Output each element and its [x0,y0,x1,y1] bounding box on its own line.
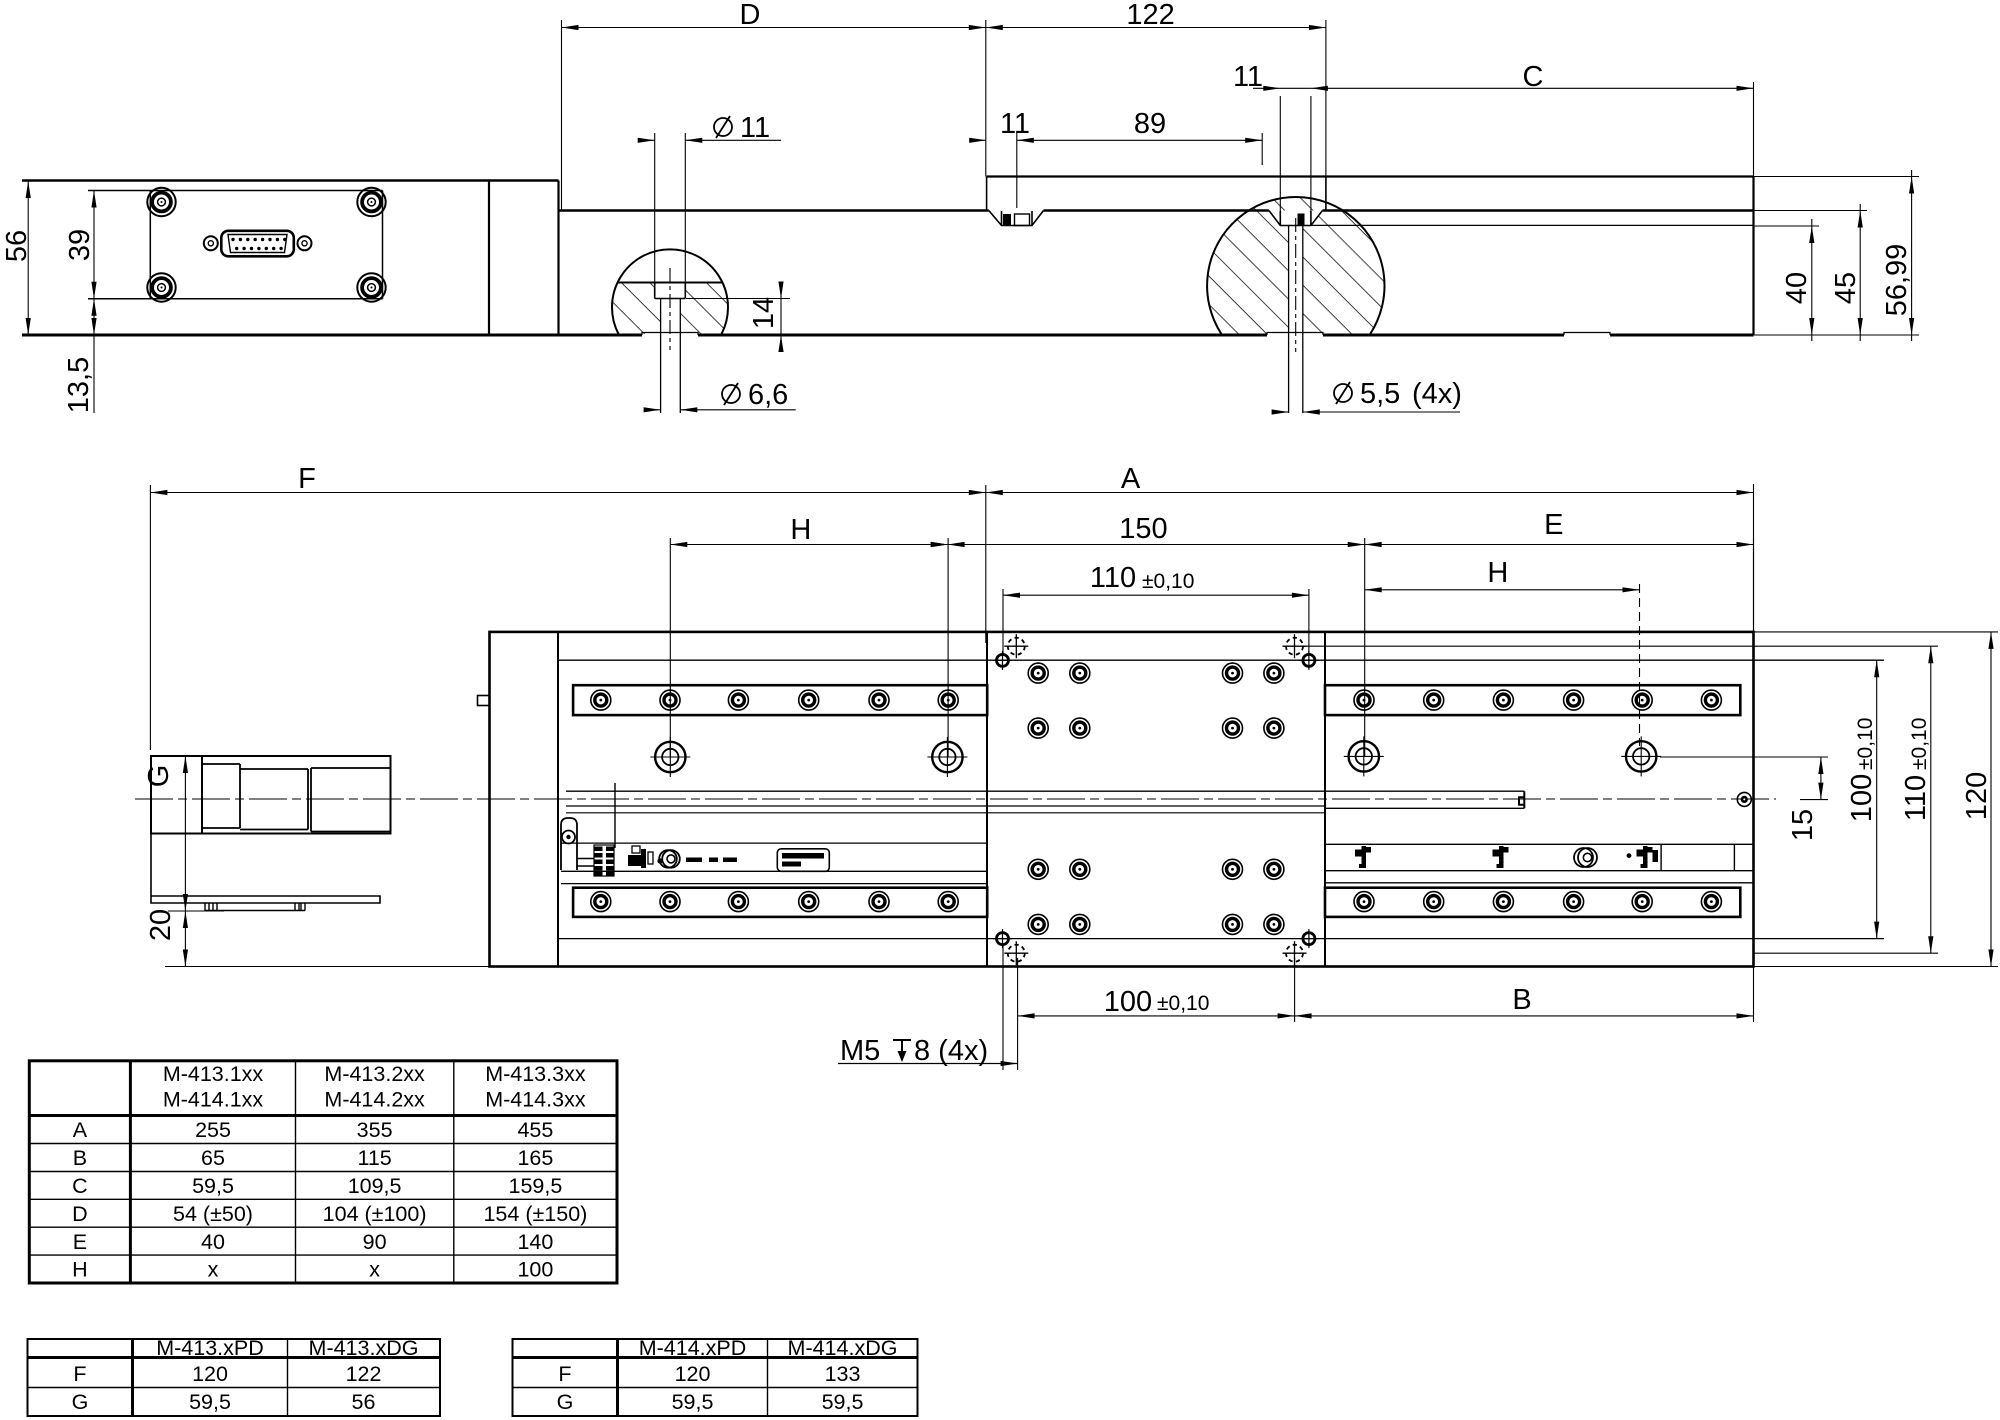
svg-text:13,5: 13,5 [63,357,95,413]
svg-text:H: H [790,514,811,546]
svg-text:C: C [72,1174,88,1198]
svg-text:8 (4x): 8 (4x) [914,1035,988,1067]
table M-414 header bottom [513,1356,918,1359]
bottom notch under right hole [1267,333,1323,336]
table M-414 columns [616,1339,619,1416]
dim diam11 [638,112,781,283]
svg-text:11: 11 [1000,108,1030,140]
rail screws lower right [1354,892,1374,912]
section circle right [1207,197,1384,334]
svg-text:A: A [73,1118,88,1142]
svg-text:14: 14 [748,297,780,329]
dim 39 [64,191,97,299]
dim 56 [1,181,110,335]
dim 110 top [1003,562,1309,654]
bolt hole 5.5 right wall [1302,226,1304,414]
dim 40 [1754,219,1820,341]
dim 120 right [1754,632,1999,967]
rail screws lower left [591,892,611,912]
svg-text:59,5: 59,5 [189,1390,231,1414]
leadscrew bottom line [566,812,1326,814]
motor housing left bearing wall [614,783,616,848]
svg-text:100: 100 [517,1258,553,1282]
double circle symbol right [1574,848,1593,867]
M5 thread BR [1299,929,1318,948]
svg-text:±0,10: ±0,10 [1908,718,1931,770]
svg-text:A: A [1121,463,1141,495]
D-sub pins row2 [235,247,283,250]
dim 20 [145,909,490,967]
dim 89 [1017,108,1262,165]
carriage screws row2 [1028,718,1048,738]
leadscrew end cap [1519,791,1524,808]
dim diam6,6 [644,379,796,412]
clamp symbol right 1 [1355,846,1371,868]
svg-text:M5: M5 [840,1035,880,1067]
svg-text:E: E [73,1230,87,1254]
svg-text:5,5: 5,5 [1360,378,1400,410]
dim 45 [1754,204,1868,341]
datum target BL [1004,941,1028,965]
connector stub on left edge [478,696,490,706]
left clamp white square [1015,214,1030,226]
dim 122 [986,0,1326,177]
svg-text:100: 100 [1846,774,1878,822]
motor section 3 [240,769,308,830]
main table header bottom [29,1114,617,1117]
svg-text:±0,10: ±0,10 [1854,718,1877,770]
dim H left [670,514,948,757]
D-sub connector body [221,231,293,256]
dim H right [1365,557,1640,746]
svg-text:110: 110 [1900,775,1932,821]
svg-text:B: B [1512,984,1531,1016]
svg-text:x: x [208,1258,219,1282]
motor mount plate [151,834,380,904]
motor block top edge [22,179,559,181]
dim C [1311,61,1754,177]
svg-text:59,5: 59,5 [822,1390,864,1414]
rail top edge [559,209,1754,211]
svg-text:11: 11 [1233,61,1263,93]
table M-413 frame [28,1339,441,1416]
connector panel top edge [88,190,383,192]
dim 110 right [1900,646,1933,953]
carriage left edge [986,177,988,211]
electronics band lower line [561,882,1754,885]
right end screw on centerline [1737,792,1751,806]
table M-414 frame [513,1339,918,1416]
centerline hole left [669,268,671,350]
svg-text:109,5: 109,5 [348,1174,402,1198]
counterbore hole right 2 [1621,736,1661,776]
centerline hole right [1295,218,1297,352]
svg-text:133: 133 [825,1362,861,1386]
terminal pin block [594,845,614,876]
carriage right edge [1325,177,1327,211]
carriage plate right edge [1324,633,1326,966]
table M-413 row line [28,1387,441,1389]
inner bottom line 100 grid [558,938,1884,940]
datum target TR [1283,634,1307,658]
limit switch bracket left [561,818,577,870]
left clamp pocket [989,211,1044,226]
electronics band bottom line [561,870,1754,873]
flange inner wall [557,632,559,967]
guide rail strip upper right [1325,685,1740,715]
target row line top [1303,645,1938,647]
counterbore slot right wall [684,283,686,299]
counterbore hole left 1 [650,737,690,777]
panel screw top-left [147,188,175,216]
clamp symbol right 2 [1493,846,1509,868]
svg-text:B: B [73,1146,87,1170]
rail screws upper left [591,690,611,710]
carriage screws row1 [1028,663,1048,683]
carriage top plate edge [987,175,1754,177]
svg-text:20: 20 [145,909,177,941]
dim 11 top [1233,61,1311,212]
svg-text:6,6: 6,6 [748,379,788,411]
motor block bottom / base bottom thick line [22,334,1754,337]
main table column lines [129,1061,132,1283]
leadscrew mid line [566,805,1326,807]
svg-text:F: F [73,1362,86,1386]
inner top line 100 grid [558,659,1884,661]
svg-text:59,5: 59,5 [192,1174,234,1198]
svg-text:122: 122 [1126,0,1174,31]
svg-text:M-414.xDG: M-414.xDG [788,1336,898,1360]
counterbore slot bottom [655,298,686,300]
small component [628,846,653,868]
svg-text:M-414.3xx: M-414.3xx [485,1088,586,1112]
svg-text:104 (±100): 104 (±100) [323,1202,427,1226]
svg-text:59,5: 59,5 [672,1390,714,1414]
counterbore hole right 1 [1344,736,1384,776]
dim F [150,463,985,750]
svg-text:56: 56 [1,230,33,262]
main centerline [135,798,1776,800]
svg-text:F: F [298,463,316,495]
right clamp pocket [1269,211,1323,226]
target row line bottom right [1754,952,1939,954]
table M-413 header bottom [28,1356,441,1359]
svg-text:D: D [740,0,761,31]
tiny dot [657,858,662,863]
bolt hole 6.6 left wall [660,299,662,414]
svg-text:455: 455 [517,1118,553,1142]
svg-text:±0,10: ±0,10 [1142,570,1194,593]
svg-text:255: 255 [195,1118,231,1142]
connector panel bottom edge [88,298,383,300]
svg-text:G: G [143,765,175,788]
svg-text:39: 39 [64,229,96,261]
dim E [1365,509,1754,632]
M5 thread TR [1299,651,1318,670]
svg-text:120: 120 [1961,772,1993,820]
svg-text:G: G [72,1390,89,1414]
dim 11 lower left [969,108,1030,208]
svg-text:165: 165 [517,1146,553,1170]
double circle symbol [659,850,677,868]
bracket links [577,859,594,867]
motor section divider 1 [201,756,203,834]
bottom notch under left hole [642,333,698,336]
bottom notch right [1564,333,1610,336]
guide rail strip lower left [573,888,987,917]
panel screw bottom-right [357,273,385,301]
boardnumber label box [777,849,829,872]
bolt hole 6.6 right wall [679,299,681,414]
svg-text:56,99: 56,99 [1881,244,1913,317]
dim diam5,5 4x [1272,378,1462,415]
svg-text:x: x [369,1258,380,1282]
svg-text:90: 90 [363,1230,387,1254]
D-sub ear left [204,236,218,250]
svg-text:122: 122 [346,1362,382,1386]
dim 56,99 [1754,170,1920,341]
tiny dot right [1627,853,1632,858]
D-sub connector inner outline [228,235,287,253]
dash marks [686,858,737,863]
carriage screws row3 [1028,859,1048,879]
body right edge [1752,177,1754,336]
svg-text:159,5: 159,5 [508,1174,562,1198]
svg-text:G: G [557,1390,574,1414]
step block right edge [557,181,559,336]
M5 leader [838,945,1018,1070]
connector panel left edge [149,191,151,299]
panel screw top-right [357,188,385,216]
dim 13,5 [63,299,97,413]
counterbore slot left wall [654,283,656,299]
svg-text:355: 355 [357,1118,393,1142]
svg-text:±0,10: ±0,10 [1157,992,1209,1015]
datum target BR [1283,941,1307,965]
D-sub pins row1 [231,238,286,241]
svg-text:M-413.1xx: M-413.1xx [163,1062,264,1086]
electronics band dividers right [1661,844,1734,870]
svg-text:89: 89 [1134,108,1166,140]
counterbore hole left 2 [927,737,967,777]
main table row lines [29,1144,617,1256]
section circle left [612,249,728,334]
table M-414 row line [513,1387,918,1389]
M5 thread TL [993,651,1012,670]
svg-text:140: 140 [517,1230,553,1254]
motor assembly envelope [151,756,391,834]
svg-text:H: H [72,1258,88,1282]
hatch of left section circle [605,283,740,335]
dim 150 [921,513,1365,756]
panel screw bottom-left [147,273,175,301]
dim G [143,756,224,911]
hatch of right section circle [1200,190,1392,334]
svg-text:56: 56 [352,1390,376,1414]
table M-413 columns [131,1339,134,1416]
step block left edge [488,181,490,336]
svg-text:M-413.3xx: M-413.3xx [485,1062,586,1086]
carriage screws row4 [1028,914,1048,934]
clamp symbol right 3 [1637,846,1653,868]
svg-text:110: 110 [1090,562,1136,594]
left clamp dark square [1003,214,1011,226]
bolt hole 5.5 left wall [1288,226,1290,414]
dim 15 right [1660,757,1828,841]
svg-text:M-413.2xx: M-413.2xx [324,1062,425,1086]
dim D [562,0,986,211]
datum target TL [1004,634,1028,658]
slot floor line right of clamp [1311,224,1754,226]
svg-text:115: 115 [357,1146,391,1170]
svg-text:C: C [1523,61,1544,93]
carriage plate left edge [986,633,988,966]
dim 14 [686,282,790,353]
svg-text:D: D [72,1202,88,1226]
svg-text:150: 150 [1119,513,1167,545]
svg-text:(4x): (4x) [1412,378,1462,410]
svg-text:M-414.xPD: M-414.xPD [639,1336,747,1360]
svg-text:54 (±50): 54 (±50) [173,1202,253,1226]
svg-text:11: 11 [740,112,770,144]
svg-text:H: H [1487,557,1508,589]
motor section 2 [202,764,240,828]
dim 100 bottom and B [1018,958,1754,1070]
svg-text:40: 40 [1781,272,1813,304]
leadscrew top line [566,790,1524,792]
mount plate tabs [205,903,305,911]
svg-text:F: F [558,1362,571,1386]
svg-text:15: 15 [1787,809,1819,841]
svg-text:120: 120 [675,1362,711,1386]
dim 100 right [1846,660,1879,938]
svg-text:E: E [1544,509,1563,541]
counterbore chord line [618,282,723,284]
D-sub ear right [298,236,312,250]
svg-text:M-414.1xx: M-414.1xx [163,1088,264,1112]
electronics band top line [561,843,1754,844]
svg-text:M-414.2xx: M-414.2xx [324,1088,425,1112]
svg-text:65: 65 [201,1146,225,1170]
guide rail strip lower right [1325,888,1740,917]
base outline [490,632,1754,967]
right clamp dark square [1298,214,1305,226]
bracket screw [562,831,575,844]
svg-text:120: 120 [192,1362,228,1386]
connector panel right edge [382,191,384,299]
leadscrew right bottom line [1326,807,1524,809]
svg-text:154 (±150): 154 (±150) [483,1202,587,1226]
rail screws upper right [1354,690,1374,710]
svg-text:40: 40 [201,1230,225,1254]
dim A [986,463,1754,643]
main table frame [29,1061,617,1283]
svg-text:M-413.xPD: M-413.xPD [156,1336,264,1360]
svg-text:100: 100 [1104,986,1152,1018]
svg-text:45: 45 [1830,272,1862,304]
motor section 4 [311,768,391,832]
svg-text:M-413.xDG: M-413.xDG [309,1336,419,1360]
M5 thread BL [993,929,1012,948]
guide rail strip upper left [573,685,987,715]
